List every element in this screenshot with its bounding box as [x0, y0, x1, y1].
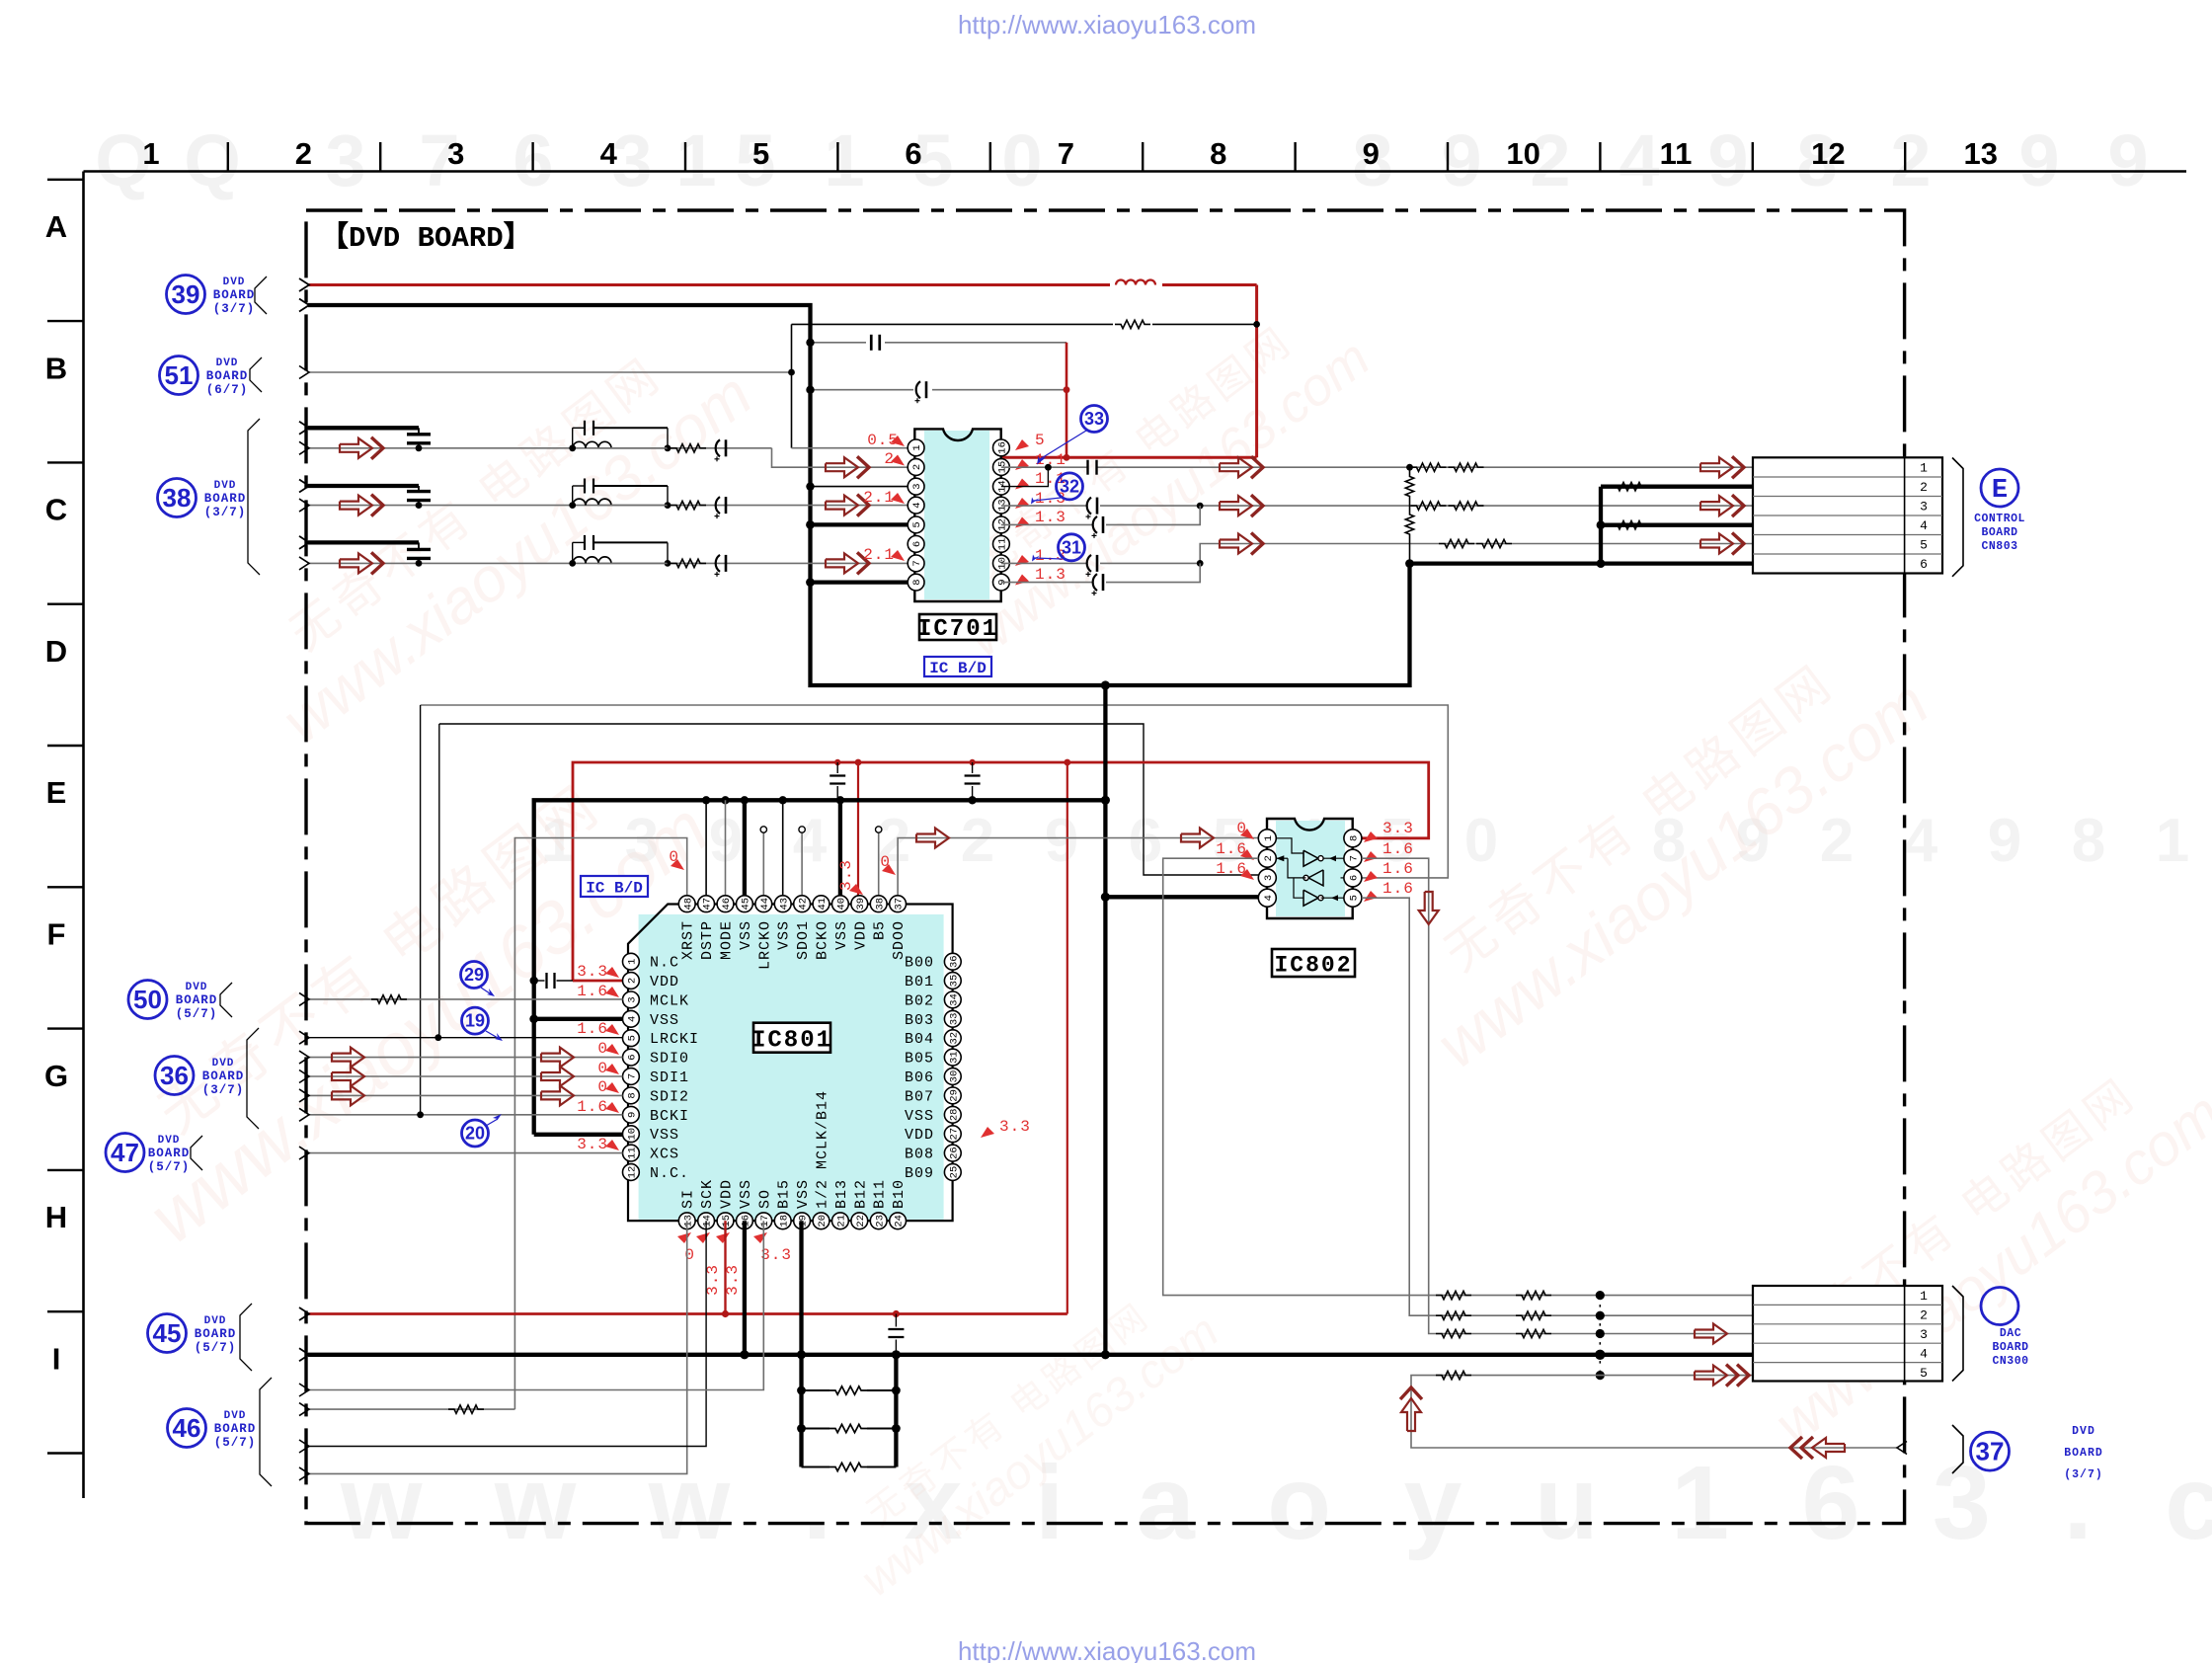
connector 50 ref	[128, 981, 167, 1019]
svg-text:SO: SO	[756, 1189, 773, 1209]
svg-text:SDO1: SDO1	[795, 920, 812, 960]
wire 38 pair thick stub	[308, 540, 419, 544]
wire net39 red top	[308, 283, 1110, 286]
junction x1119 vss H bus	[1101, 1350, 1110, 1359]
up arrow on 37 net	[1401, 1398, 1421, 1431]
svg-text:25: 25	[948, 1166, 960, 1179]
wire 38 pair gray line	[308, 447, 772, 449]
connector 50 bracket	[220, 983, 232, 1017]
svg-text:B11: B11	[872, 1179, 889, 1209]
svg-text:13: 13	[682, 1215, 694, 1227]
IC802 label box	[1272, 949, 1355, 977]
svg-text:IC B/D: IC B/D	[586, 880, 643, 898]
svg-text:6: 6	[905, 136, 921, 171]
svg-text:9: 9	[1707, 119, 1748, 201]
wire pin17 vertical to 46-1	[308, 1221, 763, 1389]
arrow on 38 gray wire	[340, 438, 372, 458]
svg-text:DVD: DVD	[186, 982, 208, 993]
wire black vertical x1119	[1103, 685, 1107, 1355]
wire 36 SDI1	[308, 1075, 623, 1077]
arrow on 38 gray wire	[340, 553, 372, 573]
svg-text:8: 8	[627, 1092, 639, 1098]
connector E bracket	[1952, 458, 1963, 577]
svg-text:33: 33	[1084, 409, 1104, 429]
arrow on SDOO net 1	[916, 829, 949, 848]
svg-text:DSTP: DSTP	[699, 920, 716, 960]
wire IC701 pin5 stub thick	[811, 522, 908, 526]
polar capacitor on pin12 net	[1093, 516, 1097, 533]
svg-text:DVD: DVD	[216, 357, 239, 369]
IC701 body	[924, 431, 989, 599]
wire 45 red	[308, 1312, 1067, 1315]
svg-text:3.3: 3.3	[577, 963, 608, 981]
wire red to pin39	[857, 762, 859, 896]
junction vss pin19	[797, 1350, 806, 1359]
arrows triple on DAC row5	[1695, 1366, 1727, 1386]
svg-text:5: 5	[752, 136, 769, 171]
svg-text:1.6: 1.6	[1382, 840, 1414, 858]
arrow on pin13 net	[1220, 496, 1252, 515]
wire net51 gray	[308, 371, 792, 373]
top ruler line	[84, 170, 2187, 173]
connector DAC ref circle	[1981, 1288, 2018, 1325]
connector 46 bracket	[260, 1378, 272, 1486]
wire red vertical x1080	[1066, 343, 1068, 458]
junction cap loop left	[806, 339, 814, 347]
junction pin10/pin9	[1197, 560, 1204, 567]
svg-text:SDI2: SDI2	[650, 1088, 689, 1105]
polar capacitor on 38 pair	[716, 439, 720, 456]
svg-text:43: 43	[778, 898, 790, 911]
IC802 internal inverters	[1303, 850, 1318, 866]
wire cap vertical lower	[894, 1355, 898, 1467]
svg-text:(5/7): (5/7)	[214, 1436, 257, 1450]
svg-text:5: 5	[911, 521, 923, 527]
svg-text:3.3: 3.3	[999, 1118, 1031, 1136]
resistor on 38 pair	[671, 559, 706, 567]
svg-text:1: 1	[824, 119, 864, 201]
svg-text:(5/7): (5/7)	[148, 1160, 191, 1174]
svg-text:7: 7	[1349, 855, 1361, 861]
svg-text:26: 26	[948, 1147, 960, 1159]
svg-text:3: 3	[325, 119, 365, 201]
svg-text:3.3: 3.3	[837, 859, 855, 891]
connector 45 bracket	[240, 1304, 252, 1371]
bundle junction dots	[1596, 1291, 1605, 1300]
blue ref 29	[461, 962, 488, 989]
IC801 pins top	[678, 896, 695, 912]
connector 36 ref	[155, 1057, 194, 1095]
svg-text:CN803: CN803	[1981, 540, 2017, 553]
svg-text:7: 7	[911, 560, 923, 566]
wire VSS bus to pin10	[534, 1133, 623, 1137]
svg-text:(6/7): (6/7)	[206, 383, 249, 397]
junction net51/vert	[788, 369, 795, 376]
svg-text:B05: B05	[905, 1051, 934, 1068]
connector 36 bracket	[247, 1028, 259, 1129]
svg-text:http://www.xiaoyu163.com: http://www.xiaoyu163.com	[958, 1636, 1256, 1663]
svg-text:36: 36	[160, 1061, 189, 1090]
connector 47 bracket	[191, 1136, 202, 1170]
E2/E4 vertical	[1599, 487, 1603, 564]
svg-text:11: 11	[1660, 136, 1693, 171]
svg-text:4: 4	[911, 502, 923, 508]
junction polar loop left	[806, 386, 814, 394]
capacitor C704 polar loop	[916, 381, 920, 398]
blue ref 31	[1059, 534, 1085, 561]
resistor ladder row2	[797, 1424, 806, 1433]
svg-text:1: 1	[675, 119, 716, 201]
svg-text:7: 7	[627, 1073, 639, 1079]
wire 36 LRCKI	[308, 1037, 623, 1039]
svg-text:H: H	[45, 1200, 67, 1234]
wire red VDD bus	[573, 762, 1429, 981]
IC801 pin42 nc stub	[801, 832, 803, 896]
svg-text:SDOO: SDOO	[891, 920, 908, 960]
resistor on 38 pair	[671, 444, 706, 452]
wire IC802 pin2 net down	[1163, 858, 1753, 1295]
wire pin13 net to E3	[1001, 505, 1086, 507]
svg-text:1: 1	[2156, 807, 2189, 875]
svg-text:39: 39	[172, 279, 200, 309]
junction vss cap vertical	[892, 1350, 901, 1359]
svg-text:37: 37	[1976, 1436, 2005, 1465]
svg-text:DVD: DVD	[223, 277, 246, 288]
svg-text:29: 29	[464, 965, 484, 985]
junction red bus pin39	[855, 759, 862, 766]
IC801 pin labels bottom rotated	[680, 1090, 908, 1209]
svg-text:G: G	[44, 1059, 68, 1093]
wire 46-2 resistor to x521	[308, 1408, 514, 1410]
svg-text:BCKI: BCKI	[650, 1108, 689, 1125]
svg-text:14: 14	[702, 1215, 714, 1227]
svg-text:1: 1	[911, 444, 923, 450]
wire 36 BCKI	[308, 1114, 623, 1116]
svg-text:6: 6	[911, 541, 923, 547]
connector 37 ref	[1952, 1425, 1963, 1473]
junction VSS bus pin4 stub	[529, 1014, 538, 1023]
connector 45 ref	[148, 1314, 187, 1353]
connector 39 bracket	[255, 277, 267, 314]
svg-text:22: 22	[855, 1215, 867, 1227]
wire IC801 pin45 stub	[743, 800, 747, 895]
svg-text:23: 23	[874, 1215, 886, 1227]
svg-text:2: 2	[1820, 807, 1854, 875]
polar capacitor on pin9 net	[1093, 574, 1097, 591]
IC801 pin labels top rotated	[680, 920, 908, 970]
junction red pin16 net	[1064, 454, 1070, 461]
svg-text:1.6: 1.6	[577, 983, 608, 1000]
svg-text:4: 4	[1619, 119, 1659, 201]
svg-text:39: 39	[855, 898, 867, 911]
svg-text:B12: B12	[852, 1179, 869, 1209]
IC801 pin38 nc stub	[878, 832, 880, 896]
wire red pin15 vertical	[724, 1221, 726, 1313]
resistors on E1 row	[1411, 463, 1447, 471]
LC filter on 38 pair	[569, 560, 576, 567]
wire IC802 pin5 net down	[1362, 898, 1753, 1315]
svg-text:32: 32	[948, 1032, 960, 1045]
svg-text:46: 46	[721, 898, 733, 911]
junction LRCKI x444	[434, 1034, 441, 1041]
svg-text:DVD: DVD	[224, 1410, 247, 1422]
wire pin13 vertical to 46-4	[308, 1221, 687, 1473]
svg-text:17: 17	[759, 1215, 771, 1227]
wire pin14 stub	[1001, 467, 1049, 486]
svg-text:VSS: VSS	[650, 1127, 679, 1144]
wire pin10 net jog to E5	[1200, 544, 1753, 564]
svg-text:5: 5	[1920, 1366, 1928, 1381]
svg-text:46: 46	[173, 1413, 201, 1443]
svg-text:(5/7): (5/7)	[195, 1341, 237, 1355]
svg-text:2: 2	[627, 978, 639, 984]
svg-text:MCLK: MCLK	[650, 992, 689, 1009]
IC802 body	[1276, 821, 1345, 916]
arrow on 38 gray wire	[340, 496, 372, 515]
svg-text:B01: B01	[905, 974, 934, 990]
svg-text:C: C	[45, 493, 67, 527]
svg-text:VDD: VDD	[719, 1179, 736, 1209]
wire 37 net with up arrow	[1411, 1376, 1898, 1448]
top ruler numbers and ticks	[142, 136, 1998, 171]
svg-text:w w w . x i a o y u 1 6 3 . c: w w w . x i a o y u 1 6 3 . c o m	[340, 1445, 2212, 1561]
blue ref 32	[1057, 473, 1083, 500]
svg-text:4: 4	[793, 807, 828, 875]
IC802 pins right	[1344, 830, 1362, 847]
svg-text:BOARD: BOARD	[1981, 526, 2017, 539]
wire 38 pair gray line	[308, 562, 908, 564]
arrow on E5 net	[1220, 534, 1252, 554]
wire pin12 stub	[1001, 523, 1092, 525]
svg-text:VDD: VDD	[650, 974, 679, 990]
svg-text:3: 3	[1920, 1327, 1928, 1342]
IC801 pin labels left	[650, 955, 699, 1182]
svg-text:BOARD: BOARD	[202, 1069, 245, 1083]
wire 36 SDI2	[308, 1094, 623, 1096]
svg-text:1.6: 1.6	[577, 1020, 608, 1038]
svg-text:13: 13	[1964, 136, 1998, 171]
svg-text:BOARD: BOARD	[176, 993, 218, 1007]
svg-text:VSS: VSS	[833, 920, 850, 950]
arrows on E1 E3 rows	[1700, 457, 1733, 477]
arrow on pin15 net	[1220, 457, 1252, 477]
svg-text:B03: B03	[905, 1012, 934, 1029]
svg-text:29: 29	[948, 1089, 960, 1102]
wire vertical x425 to BCKI	[420, 705, 422, 1115]
svg-text:9: 9	[1988, 807, 2021, 875]
polar capacitor on pin10 net	[1087, 555, 1091, 572]
svg-text:VSS: VSS	[738, 920, 754, 950]
LC filter on 38 pair	[569, 444, 576, 451]
wire red vertical x1080 down to H	[1066, 762, 1068, 1314]
svg-text:1.6: 1.6	[1382, 860, 1414, 878]
svg-text:BOARD: BOARD	[204, 492, 247, 506]
wire net SDOO pin37 to IC802 pin1	[898, 838, 1258, 896]
svg-text:48: 48	[682, 898, 694, 911]
svg-text:DVD: DVD	[214, 480, 237, 492]
svg-text:VSS: VSS	[905, 1108, 934, 1125]
svg-text:0: 0	[1464, 807, 1498, 875]
svg-text:I: I	[52, 1341, 61, 1376]
IC801 pins right	[944, 953, 961, 970]
svg-text:11: 11	[997, 538, 1009, 551]
svg-text:3.3: 3.3	[724, 1264, 742, 1296]
svg-text:12: 12	[1811, 136, 1845, 171]
svg-text:DVD: DVD	[2072, 1425, 2095, 1438]
svg-text:B02: B02	[905, 992, 934, 1009]
LC filter on 38 pair	[569, 502, 576, 509]
watermark faint digits top row	[95, 119, 2148, 201]
IC801 pins bottom	[678, 1213, 695, 1229]
svg-text:4: 4	[1920, 518, 1928, 533]
wire red into pin2	[573, 980, 623, 983]
blue ref 19	[462, 1007, 489, 1034]
svg-text:MODE: MODE	[719, 920, 736, 960]
arrow into IC701 pin	[826, 496, 858, 515]
wire IC801 pin43 stub	[782, 800, 784, 895]
svg-text:1: 1	[142, 136, 159, 171]
svg-text:8: 8	[1210, 136, 1226, 171]
svg-text:9: 9	[2018, 119, 2059, 201]
junction BCKI x425	[417, 1111, 424, 1118]
svg-text:1.6: 1.6	[577, 1098, 608, 1116]
svg-text:5: 5	[1920, 538, 1928, 553]
svg-text:5: 5	[627, 1035, 639, 1041]
svg-text:E: E	[1992, 476, 2008, 506]
svg-text:IC801: IC801	[751, 1028, 832, 1055]
wire 38 jog to pin	[772, 448, 908, 467]
svg-text:44: 44	[759, 898, 771, 911]
left ruler line	[82, 172, 85, 1499]
svg-text:1: 1	[1920, 1289, 1928, 1304]
svg-text:33: 33	[948, 1012, 960, 1025]
svg-text:51: 51	[165, 360, 194, 390]
svg-text:47: 47	[111, 1138, 139, 1167]
svg-text:3: 3	[627, 996, 639, 1002]
wire 36 SDI0	[308, 1057, 623, 1059]
svg-text:B15: B15	[776, 1179, 793, 1209]
svg-text:4: 4	[1904, 807, 1938, 875]
connector DAC label	[1992, 1327, 2028, 1368]
svg-text:BOARD: BOARD	[206, 369, 249, 383]
svg-text:41: 41	[817, 898, 829, 911]
wire IC701 pin8 stub thick	[811, 580, 908, 584]
arrows on 37 net left	[1812, 1438, 1845, 1458]
svg-text:BOARD: BOARD	[214, 1422, 257, 1436]
blue ref 33	[1081, 406, 1108, 433]
wire cap loop gray y347	[811, 342, 867, 344]
capacitor C805 on red bus	[834, 759, 840, 765]
capacitor C807 red cap at pin2	[530, 977, 538, 985]
svg-text:2: 2	[1263, 855, 1275, 861]
IC801 IC B/D label	[581, 876, 648, 897]
junction red bus x1080	[1064, 759, 1070, 766]
svg-text:【DVD BOARD】: 【DVD BOARD】	[320, 220, 532, 255]
svg-text:3: 3	[1263, 875, 1275, 881]
inductor L701 on net39	[1116, 280, 1155, 285]
wire start 51	[299, 366, 309, 379]
down arrow on pin7 net	[1419, 892, 1439, 924]
resistor on 38 pair	[671, 501, 706, 509]
IC801 pin labels right	[905, 955, 934, 1182]
wire IC801 pin47 stub	[705, 800, 707, 895]
connector 47 ref	[106, 1134, 144, 1172]
wire pin16 red	[1001, 456, 1257, 459]
svg-text:3: 3	[911, 483, 923, 489]
wire vertical x444 to LRCKI	[438, 724, 440, 1038]
svg-text:BOARD: BOARD	[148, 1147, 191, 1160]
wire black VSS bus	[534, 800, 1106, 1135]
svg-text:36: 36	[948, 955, 960, 968]
svg-text:B09: B09	[905, 1165, 934, 1182]
svg-text:19: 19	[465, 1011, 485, 1031]
svg-text:0: 0	[597, 1060, 608, 1077]
capacitor C703 loop	[870, 335, 873, 351]
svg-text:(3/7): (3/7)	[204, 506, 247, 519]
svg-text:DAC: DAC	[2000, 1327, 2021, 1340]
svg-text:0: 0	[1001, 119, 1042, 201]
svg-text:VDD: VDD	[852, 920, 869, 950]
svg-text:4: 4	[1920, 1346, 1928, 1361]
svg-text:B04: B04	[905, 1031, 934, 1048]
svg-text:IC701: IC701	[917, 616, 998, 643]
dotted bundle line	[1599, 1296, 1601, 1376]
svg-text:BCKO: BCKO	[815, 920, 831, 960]
wire end 37	[1897, 1442, 1907, 1455]
svg-text:9: 9	[1045, 807, 1078, 875]
IC802 pins left	[1258, 830, 1276, 847]
wire polar cap loop y395	[811, 389, 914, 391]
connector 39 ref	[167, 276, 205, 314]
svg-text:VSS: VSS	[650, 1012, 679, 1029]
svg-text:SDI0: SDI0	[650, 1051, 689, 1068]
DVD BOARD dash-dot border	[306, 210, 1905, 1524]
wire IC701 pin3 stub	[811, 486, 908, 488]
svg-text:1.3: 1.3	[1035, 566, 1066, 584]
polar capacitor on pin13 net	[1087, 498, 1091, 515]
svg-text:1.3: 1.3	[1035, 509, 1066, 526]
resistors on E5 row	[1439, 539, 1474, 547]
svg-text:1/2 MCLK/B14: 1/2 MCLK/B14	[815, 1090, 831, 1209]
svg-text:38: 38	[874, 898, 886, 911]
svg-text:2: 2	[1890, 119, 1931, 201]
svg-text:(5/7): (5/7)	[176, 1007, 218, 1021]
svg-text:B: B	[45, 351, 67, 385]
connector E box	[1753, 457, 1942, 573]
svg-text:47: 47	[702, 898, 714, 911]
svg-text:45: 45	[741, 898, 752, 911]
capacitor C705 on pin15 net	[1086, 460, 1088, 475]
svg-text:B13: B13	[833, 1179, 850, 1209]
arrow into IC701 pin	[826, 553, 858, 573]
resistors on DAC rows	[1436, 1291, 1471, 1299]
svg-text:DVD: DVD	[204, 1315, 227, 1327]
IC801 body	[639, 914, 944, 1220]
svg-text:XCS: XCS	[650, 1147, 679, 1163]
connector 38 bracket	[248, 419, 260, 575]
wire net714 to IC802 pin6	[421, 705, 1449, 878]
wire pin19 vertical thick	[799, 1221, 803, 1466]
svg-text:9: 9	[1363, 136, 1380, 171]
svg-text:http://www.xiaoyu163.com: http://www.xiaoyu163.com	[958, 10, 1256, 40]
svg-text:34: 34	[948, 993, 960, 1006]
svg-text:2: 2	[961, 807, 994, 875]
svg-text:10: 10	[1506, 136, 1540, 171]
svg-text:9: 9	[2107, 119, 2148, 201]
resistors on E3 row	[1411, 502, 1447, 510]
svg-text:LRCKO: LRCKO	[756, 920, 773, 970]
connector 46 ref	[168, 1409, 206, 1448]
